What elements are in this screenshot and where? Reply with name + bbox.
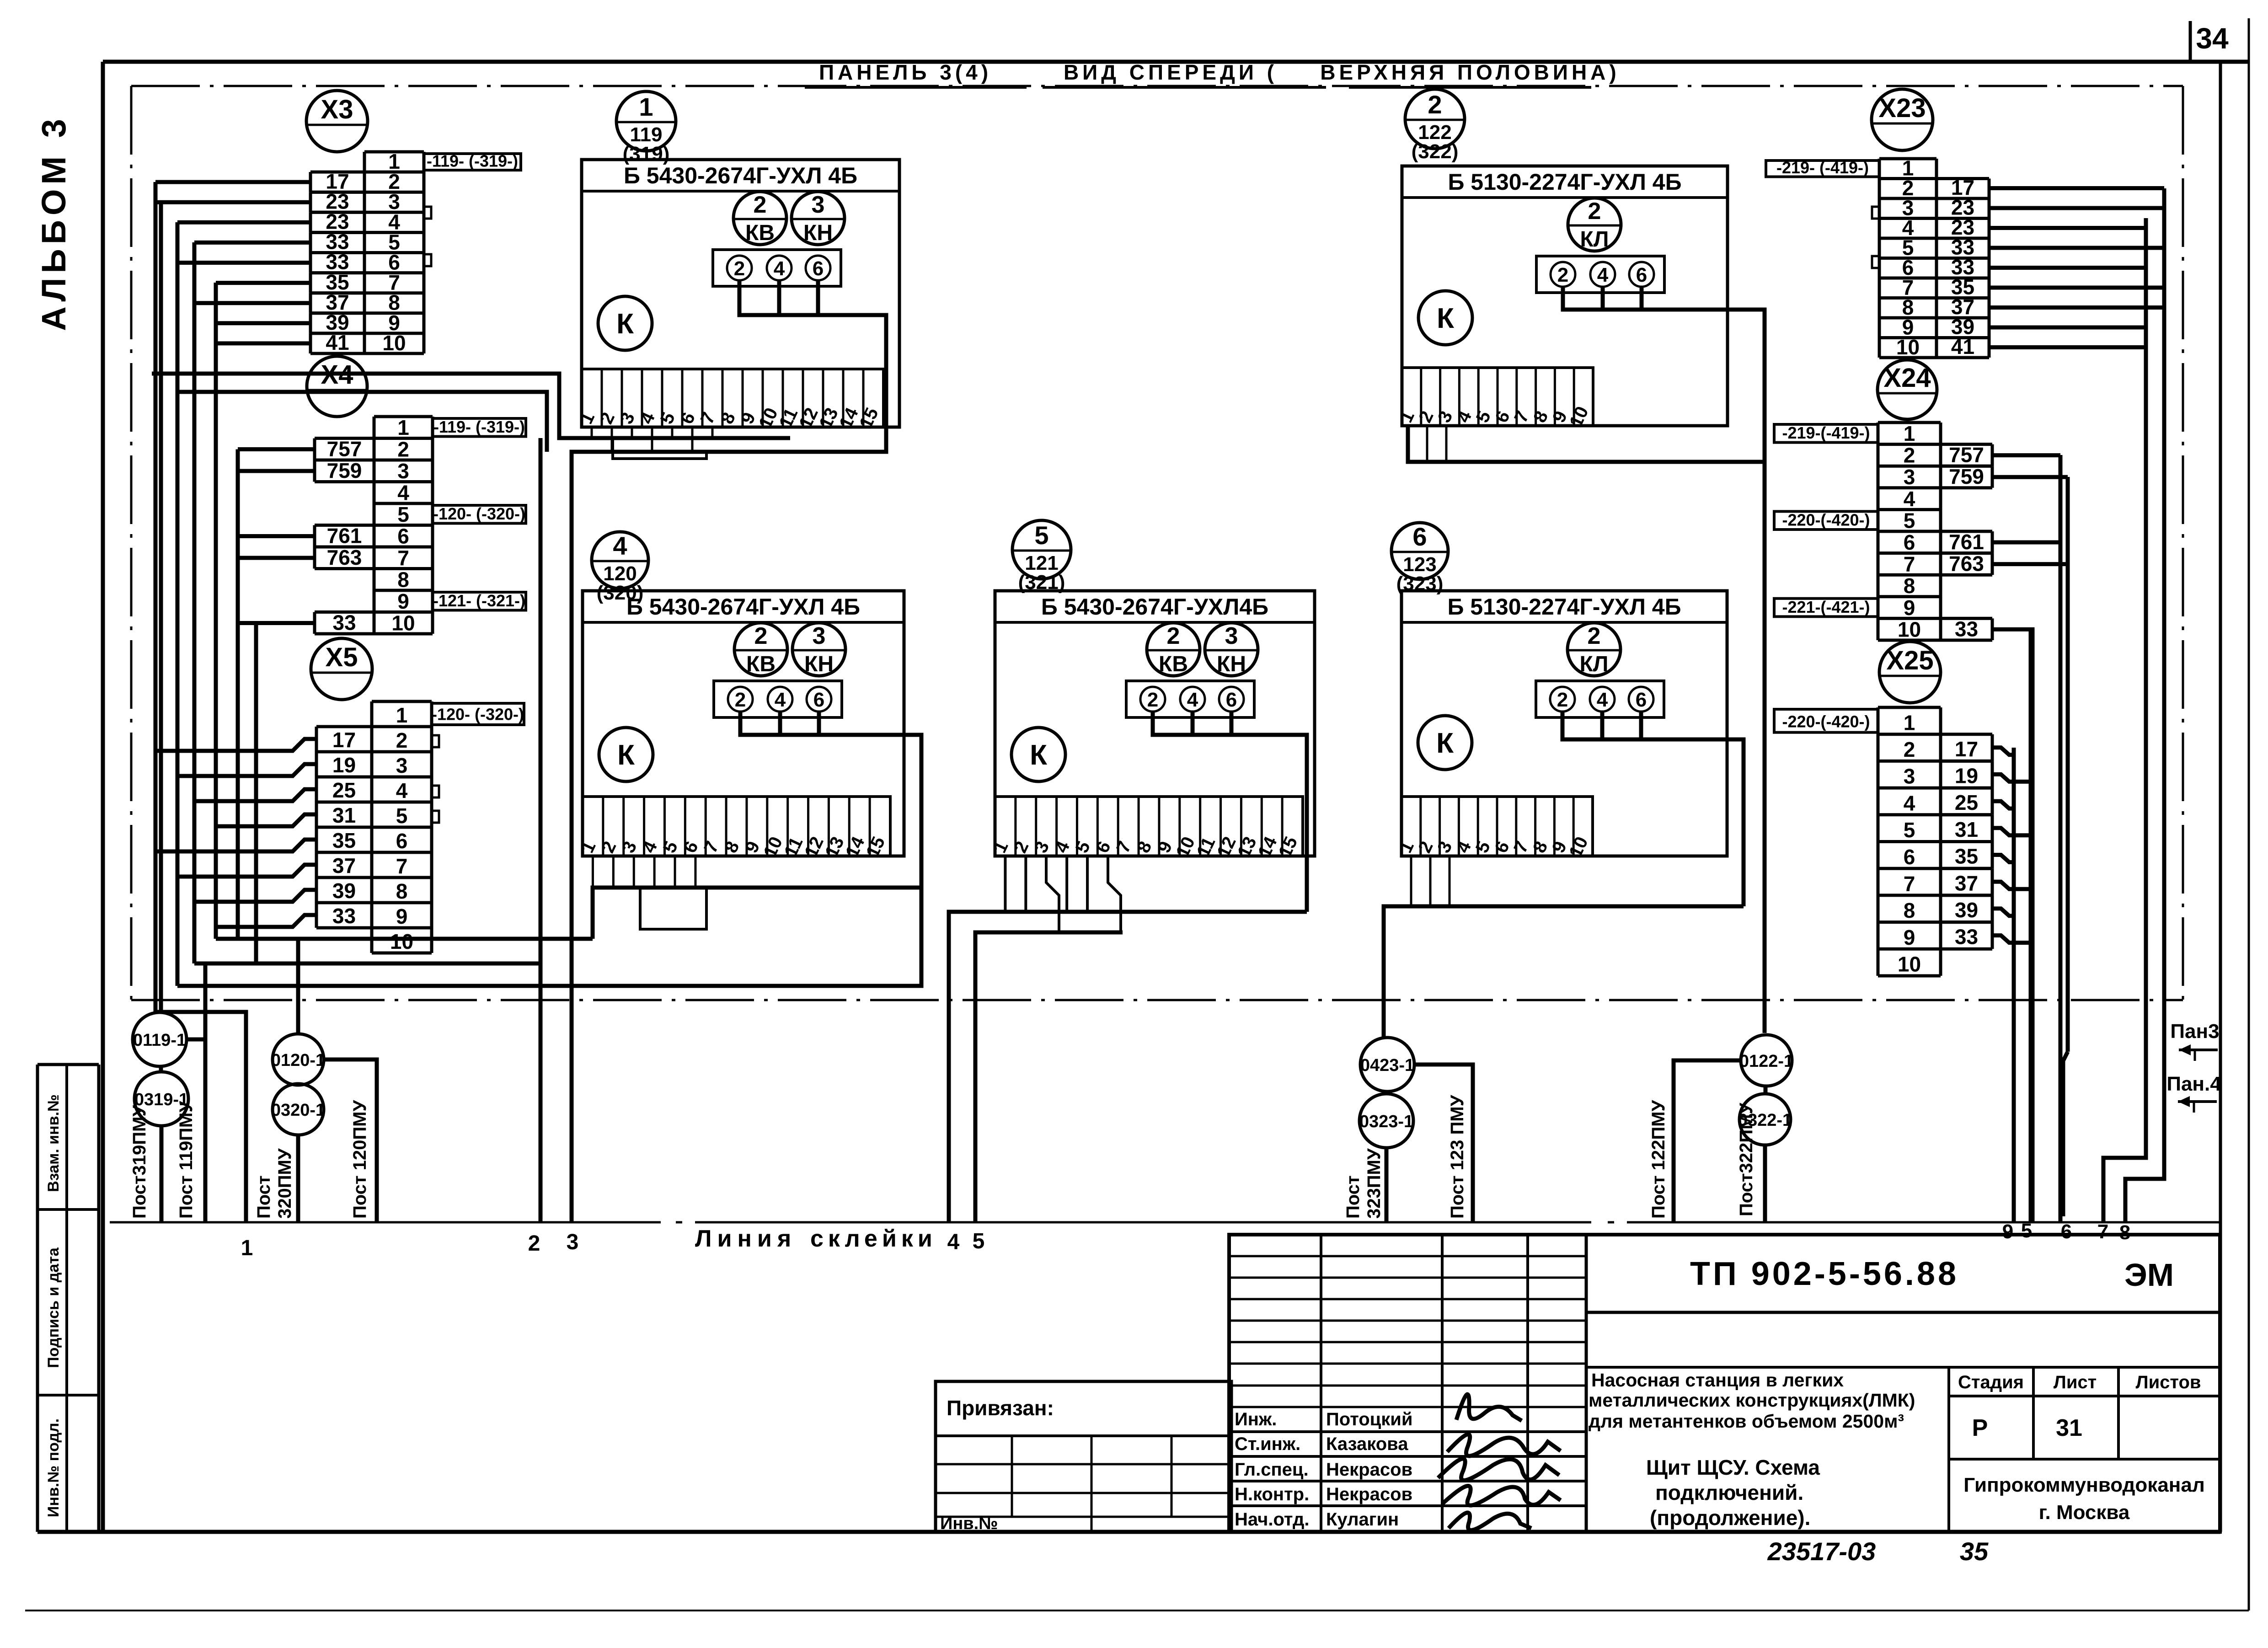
- svg-text:для метантенков объемом 2500: для метантенков объемом 2500м³: [1589, 1411, 1904, 1432]
- svg-text:2: 2: [1904, 738, 1915, 761]
- svg-text:759: 759: [1949, 465, 1984, 488]
- wire X4 row feeds: [238, 449, 315, 964]
- svg-text:0119-1: 0119-1: [133, 1031, 186, 1050]
- connector X24 terminal table: [1878, 423, 1941, 640]
- terminal strip 1..15 of U5: [990, 797, 1303, 861]
- wire U4 under-strip bus: [593, 856, 921, 939]
- contact element 2 КЛ of U2: [1568, 198, 1621, 251]
- contact terminals 2 4 6 of U4: [714, 681, 842, 717]
- svg-text:31: 31: [2056, 1415, 2082, 1441]
- node project title text: [1589, 1370, 1915, 1432]
- svg-text:1: 1: [1904, 422, 1915, 445]
- svg-text:Некрасов: Некрасов: [1326, 1460, 1412, 1480]
- svg-text:4: 4: [1904, 487, 1915, 511]
- svg-text:25: 25: [332, 778, 356, 802]
- svg-text:2: 2: [735, 689, 746, 711]
- svg-text:(319): (319): [623, 143, 670, 165]
- svg-text:2: 2: [1147, 689, 1158, 711]
- svg-text:2: 2: [397, 437, 409, 461]
- svg-text:10: 10: [1896, 335, 1920, 359]
- svg-text:761: 761: [1949, 530, 1984, 554]
- wire bus E y2156 w3 junction: [177, 984, 921, 988]
- svg-text:2: 2: [1557, 264, 1568, 286]
- svg-text:8: 8: [397, 567, 409, 591]
- connector X25 symbol: [1879, 642, 1941, 703]
- svg-text:7: 7: [1904, 872, 1915, 896]
- svg-text:2: 2: [1557, 689, 1568, 711]
- svg-text:1: 1: [1904, 711, 1915, 734]
- svg-text:6: 6: [1226, 689, 1237, 711]
- svg-text:ПАНЕЛЬ 3(4): ПАНЕЛЬ 3(4): [819, 60, 992, 84]
- svg-text:9: 9: [397, 589, 409, 613]
- connector X5 symbol: [311, 638, 372, 700]
- svg-text:К: К: [1436, 728, 1454, 759]
- node post circle 0120-1: [271, 1034, 325, 1085]
- svg-text:1: 1: [241, 1236, 253, 1260]
- wire left bundle vertical E: [214, 283, 218, 939]
- svg-text:4: 4: [397, 481, 409, 504]
- svg-text:Некрасов: Некрасов: [1326, 1484, 1412, 1504]
- svg-text:3: 3: [1904, 465, 1915, 489]
- wire U5 under-strip bus upper: [949, 856, 1307, 1222]
- svg-text:3: 3: [812, 192, 825, 218]
- svg-text:2: 2: [1588, 198, 1601, 225]
- svg-text:31: 31: [1955, 818, 1978, 841]
- svg-text:4: 4: [396, 779, 408, 803]
- contact terminals 2 4 6 of U5: [1126, 681, 1254, 717]
- connector X24 symbol: [1878, 360, 1937, 419]
- relay coil K of U6: [1418, 716, 1472, 770]
- svg-text:X5: X5: [326, 642, 358, 672]
- svg-text:1: 1: [397, 416, 409, 439]
- svg-text:Гл.спец.: Гл.спец.: [1235, 1460, 1309, 1480]
- node privyazan table: [936, 1381, 1231, 1533]
- svg-text:33: 33: [1955, 617, 1978, 641]
- node post circle 0122-1: [1739, 1035, 1793, 1086]
- svg-text:1: 1: [639, 92, 653, 121]
- svg-text:КВ: КВ: [1159, 652, 1188, 676]
- svg-text:4: 4: [1187, 689, 1198, 711]
- connector X25 terminal table: [1878, 707, 1941, 976]
- wire riser V5b: [2029, 629, 2033, 1222]
- svg-text:3: 3: [813, 623, 826, 649]
- svg-text:Ст.инж.: Ст.инж.: [1235, 1434, 1300, 1454]
- wire splice line (Линия склейки): [110, 1221, 2220, 1224]
- svg-text:5: 5: [397, 503, 409, 526]
- svg-text:19: 19: [1955, 764, 1978, 788]
- wire U2 under-strip bus: [1408, 426, 1765, 462]
- connector X4 symbol: [307, 356, 367, 417]
- wire U1 bus feed lower: [177, 392, 547, 452]
- svg-text:6: 6: [396, 829, 408, 853]
- wire sheet-bottom-edge: [25, 1610, 2249, 1611]
- svg-text:Листов: Листов: [2136, 1372, 2201, 1392]
- svg-text:-221-(-421-): -221-(-421-): [1782, 598, 1870, 616]
- svg-text:9: 9: [1904, 596, 1915, 620]
- svg-text:4: 4: [947, 1230, 960, 1254]
- svg-text:КВ: КВ: [746, 652, 776, 676]
- svg-text:-219- (-419-): -219- (-419-): [1776, 158, 1869, 177]
- svg-text:8: 8: [2119, 1221, 2130, 1244]
- wire sheet-right-edge: [2248, 18, 2250, 1611]
- wire U1 under-strip bus: [152, 374, 790, 1222]
- wire bus C y2107 w2 drop: [194, 962, 540, 966]
- wire U6 under-strip bus: [1384, 856, 1744, 1037]
- wire inner-border-left: [130, 86, 133, 1000]
- svg-text:3: 3: [567, 1230, 579, 1254]
- relay coil K of U1: [598, 296, 652, 350]
- svg-text:К: К: [617, 739, 635, 771]
- svg-text:Р: Р: [1972, 1415, 1988, 1441]
- svg-text:757: 757: [1949, 443, 1984, 467]
- svg-text:763: 763: [327, 546, 362, 569]
- svg-text:ТП 902-5-56.88: ТП 902-5-56.88: [1690, 1256, 1959, 1292]
- svg-text:6: 6: [2061, 1220, 2072, 1243]
- svg-text:5: 5: [2021, 1220, 2032, 1242]
- node panel link Пан3: [2170, 1020, 2219, 1061]
- svg-text:склейки: склейки: [810, 1225, 937, 1252]
- svg-text:4: 4: [1904, 791, 1915, 815]
- svg-text:Гипрокоммунводоканал: Гипрокоммунводоканал: [1963, 1474, 2205, 1496]
- svg-text:ЭМ: ЭМ: [2124, 1257, 2174, 1293]
- terminal strip 1..10 of U2: [1396, 368, 1593, 430]
- svg-text:Б 5430-2674Г-УХЛ 4Б: Б 5430-2674Г-УХЛ 4Б: [626, 594, 860, 620]
- svg-text:1: 1: [396, 703, 408, 727]
- wire left bundle vertical B (feeds 0119-1): [159, 202, 163, 1012]
- svg-text:КН: КН: [803, 221, 833, 245]
- wire U4 under-strip staircase: [640, 888, 706, 929]
- svg-text:33: 33: [332, 610, 356, 634]
- svg-text:10: 10: [1898, 952, 1921, 976]
- svg-text:6: 6: [1636, 264, 1647, 286]
- node title block staff rows: [1235, 1409, 1412, 1530]
- node post circle 0119-1: [133, 1012, 187, 1066]
- svg-text:X3: X3: [321, 95, 353, 124]
- relay unit U6 outline Б 5130-2274Г-УХЛ 4Б: [1401, 591, 1727, 856]
- wire inner-border-bottom: [131, 999, 2183, 1001]
- svg-text:4: 4: [1597, 689, 1608, 711]
- svg-text:Пост322ПМУ: Пост322ПМУ: [1736, 1102, 1756, 1216]
- svg-text:2: 2: [1904, 444, 1915, 467]
- svg-text:6: 6: [1904, 845, 1915, 869]
- relay unit U5 outline Б 5430-2674Г-УХЛ4Б: [995, 591, 1315, 856]
- contact element 2 КВ of U4: [734, 623, 787, 676]
- svg-text:-220-(-420-): -220-(-420-): [1782, 712, 1870, 731]
- node vertical text Пост 120ПМУ: [350, 1100, 370, 1219]
- svg-text:(320): (320): [597, 582, 644, 604]
- contact element 2 КЛ of U6: [1567, 623, 1621, 676]
- svg-text:757: 757: [327, 437, 362, 460]
- node vertical text Пост 323ПМУ: [1343, 1148, 1384, 1219]
- svg-text:7: 7: [397, 546, 409, 570]
- wire X3 row feeds: [155, 182, 310, 343]
- svg-text:33: 33: [332, 904, 356, 928]
- wire riser V9: [2012, 748, 2016, 1222]
- connector X5 terminal table: [372, 701, 432, 953]
- svg-text:37: 37: [1955, 871, 1978, 895]
- wire frame-right-inner: [2219, 62, 2222, 1532]
- svg-text:Привязан:: Привязан:: [947, 1396, 1054, 1420]
- svg-text:4: 4: [774, 257, 785, 280]
- svg-text:4: 4: [613, 531, 627, 560]
- svg-text:39: 39: [1955, 898, 1978, 922]
- node X3 keying tabs: [424, 207, 431, 266]
- svg-text:0320-1: 0320-1: [271, 1101, 325, 1120]
- node document number ТП 902-5-56.88 ЭМ: [1586, 1256, 2220, 1312]
- connector X23 terminal table: [1879, 159, 1936, 358]
- svg-text:5: 5: [1904, 508, 1915, 532]
- wire inner-border-right: [2182, 86, 2184, 1000]
- svg-text:Щит ЩСУ. Схема: Щит ЩСУ. Схема: [1646, 1455, 1820, 1479]
- relay coil K of U5: [1011, 728, 1065, 781]
- wire 0423-1 connections: [1386, 1065, 1473, 1222]
- svg-text:6: 6: [813, 689, 824, 711]
- wire bus F y2053: [216, 937, 593, 941]
- svg-text:2: 2: [1588, 623, 1601, 649]
- svg-text:(322): (322): [1412, 140, 1459, 163]
- contact element 3 КН of U5: [1205, 623, 1258, 676]
- svg-text:33: 33: [1955, 925, 1978, 949]
- relay coil K of U4: [599, 728, 653, 781]
- terminal strip 1..15 of U4: [577, 797, 890, 861]
- svg-text:0423-1: 0423-1: [1360, 1056, 1414, 1075]
- svg-text:3: 3: [397, 459, 409, 483]
- svg-text:2: 2: [754, 623, 768, 649]
- node X5 keying tabs: [432, 735, 439, 823]
- svg-text:-121- (-321-): -121- (-321-): [433, 591, 525, 610]
- wire U5 contact bus to riser: [1153, 712, 1307, 912]
- svg-text:5: 5: [396, 804, 408, 828]
- svg-text:Пост 120ПМУ: Пост 120ПМУ: [350, 1100, 370, 1219]
- svg-text:320ПМУ: 320ПМУ: [275, 1148, 295, 1219]
- svg-text:Б 5130-2274Г-УХЛ 4Б: Б 5130-2274Г-УХЛ 4Б: [1448, 169, 1681, 195]
- connector X3 symbol: [306, 91, 368, 152]
- node vertical text Пост322ПМУ: [1736, 1102, 1756, 1216]
- svg-text:КВ: КВ: [745, 221, 775, 245]
- svg-text:41: 41: [326, 331, 349, 354]
- wire frame-left-border: [101, 62, 105, 1532]
- wire 0122-1 connections: [1674, 1060, 1765, 1222]
- svg-text:6: 6: [813, 257, 824, 280]
- svg-text:Казакова: Казакова: [1326, 1434, 1408, 1454]
- connector X23 symbol: [1872, 89, 1933, 150]
- wire U2 contact bus to riser: [1563, 287, 1765, 1033]
- node sheet-number 34: [2190, 21, 2229, 61]
- svg-text:Пост319ПМУ: Пост319ПМУ: [129, 1105, 150, 1219]
- node vertical text Пост 123 ПМУ: [1447, 1094, 1467, 1219]
- svg-text:0120-1: 0120-1: [271, 1051, 325, 1070]
- svg-text:0323-1: 0323-1: [1359, 1112, 1413, 1131]
- svg-text:6: 6: [1412, 522, 1427, 551]
- svg-text:8: 8: [1904, 574, 1915, 598]
- svg-text:3: 3: [1225, 623, 1238, 649]
- svg-text:5: 5: [973, 1229, 985, 1253]
- svg-text:Б 5130-2274Г-УХЛ 4Б: Б 5130-2274Г-УХЛ 4Б: [1447, 594, 1681, 620]
- wire riser V8 to splice 8: [2125, 188, 2164, 1222]
- svg-text:Пост 122ПМУ: Пост 122ПМУ: [1648, 1100, 1669, 1219]
- svg-text:19: 19: [332, 753, 356, 777]
- svg-text:Потоцкий: Потоцкий: [1326, 1409, 1412, 1429]
- svg-text:17: 17: [1955, 737, 1978, 761]
- svg-text:7: 7: [2097, 1220, 2108, 1243]
- contact element 2 КВ of U1: [733, 192, 786, 245]
- svg-text:37: 37: [332, 854, 356, 878]
- svg-text:35: 35: [1955, 845, 1978, 868]
- svg-text:К: К: [1030, 739, 1047, 771]
- svg-text:759: 759: [327, 459, 362, 482]
- wire w1 jog: [155, 1012, 246, 1222]
- svg-text:8: 8: [1904, 899, 1915, 922]
- wire X23 feeds to risers: [1989, 188, 2164, 348]
- node signatures: [1438, 1394, 1561, 1530]
- svg-text:Пост 119ПМУ: Пост 119ПМУ: [176, 1101, 196, 1219]
- svg-text:-219-(-419-): -219-(-419-): [1782, 423, 1870, 442]
- contact element 3 КН of U1: [792, 192, 845, 245]
- svg-text:КН: КН: [804, 652, 834, 676]
- svg-text:6: 6: [1636, 689, 1647, 711]
- svg-text:-120- (-320-): -120- (-320-): [433, 504, 525, 523]
- connector X4 terminal table: [374, 417, 433, 634]
- svg-text:10: 10: [391, 611, 415, 635]
- relay unit U1 outline Б 5430-2674Г-УХЛ 4Б: [582, 160, 899, 427]
- node splice line label: [695, 1225, 937, 1252]
- svg-text:Пост: Пост: [1343, 1176, 1363, 1219]
- svg-text:Пост 123 ПМУ: Пост 123 ПМУ: [1447, 1094, 1467, 1219]
- svg-text:Инж.: Инж.: [1235, 1409, 1277, 1429]
- svg-text:34: 34: [2196, 22, 2229, 55]
- terminal strip 1..15 of U1: [576, 369, 883, 432]
- svg-text:подключений.: подключений.: [1655, 1481, 1803, 1504]
- svg-text:-119- (-319-): -119- (-319-): [433, 417, 525, 436]
- svg-text:(323): (323): [1396, 573, 1444, 595]
- wire left bundle vertical C: [176, 222, 180, 986]
- contact terminals 2 4 6 of U2: [1536, 256, 1664, 293]
- svg-text:Н.контр.: Н.контр.: [1235, 1484, 1309, 1504]
- wire X25 feeds: [1992, 748, 2031, 943]
- svg-text:763: 763: [1949, 552, 1984, 576]
- node cable marker 2/122(322): [1405, 89, 1465, 163]
- svg-text:35: 35: [1960, 1537, 1989, 1566]
- svg-text:10: 10: [1898, 617, 1921, 641]
- svg-text:25: 25: [1955, 791, 1978, 814]
- contact terminals 2 4 6 of U6: [1536, 681, 1664, 717]
- svg-text:К: К: [616, 308, 634, 340]
- wire X24 feeds: [1992, 455, 2068, 1222]
- svg-text:(продолжение).: (продолжение).: [1650, 1506, 1810, 1530]
- svg-text:АЛЬБОМ 3: АЛЬБОМ 3: [35, 114, 73, 331]
- svg-text:КЛ: КЛ: [1580, 227, 1609, 251]
- node organization: [1963, 1474, 2205, 1524]
- terminal strip 1..10 of U6: [1396, 797, 1593, 861]
- wire U1 under-strip staircase: [613, 438, 706, 459]
- svg-text:-120- (-320-): -120- (-320-): [432, 705, 524, 724]
- connector X3 terminal table: [364, 152, 424, 353]
- svg-text:6: 6: [1904, 530, 1915, 554]
- node stamp-column: [37, 1065, 99, 1532]
- svg-text:Б 5430-2674Г-УХЛ 4Б: Б 5430-2674Г-УХЛ 4Б: [624, 163, 857, 188]
- node cable marker 6/123(323): [1391, 522, 1448, 595]
- wire X5 row feeds with jogs: [155, 739, 316, 927]
- wire U5 under-strip bus lower / w5 drop: [975, 856, 1123, 1222]
- svg-text:-119- (-319-): -119- (-319-): [427, 152, 518, 171]
- svg-text:2: 2: [1167, 623, 1180, 649]
- node post circle 0322-1: [1738, 1094, 1792, 1145]
- svg-text:Насосная станция в легких: Насосная станция в легких: [1591, 1370, 1844, 1391]
- svg-text:г. Москва: г. Москва: [2039, 1501, 2130, 1524]
- svg-text:4: 4: [775, 689, 786, 711]
- node post circle 0319-1: [134, 1072, 188, 1126]
- node inventory number 23517-03 35: [1767, 1537, 1989, 1566]
- svg-text:2: 2: [396, 728, 408, 752]
- svg-text:2: 2: [1428, 90, 1442, 119]
- svg-text:металлических конструкциях(ЛМ: металлических конструкциях(ЛМК): [1589, 1390, 1915, 1411]
- svg-text:Взам. инв.№: Взам. инв.№: [45, 1094, 62, 1192]
- wire U1 contact bus to riser: [572, 280, 886, 1222]
- wire riser V7 to splice 7: [2103, 218, 2146, 1222]
- svg-text:0122-1: 0122-1: [1739, 1052, 1793, 1071]
- svg-text:39: 39: [332, 879, 356, 903]
- node vertical text Пост 119ПМУ: [176, 1101, 196, 1219]
- contact element 2 КВ of U5: [1147, 623, 1200, 676]
- svg-text:Линия: Линия: [695, 1225, 797, 1252]
- svg-text:23517-03: 23517-03: [1767, 1537, 1876, 1566]
- svg-text:Подпись и дата: Подпись и дата: [45, 1247, 62, 1368]
- node post circle 0423-1: [1360, 1038, 1414, 1092]
- svg-text:3: 3: [1904, 765, 1915, 788]
- svg-text:Нач.отд.: Нач.отд.: [1235, 1509, 1309, 1530]
- svg-text:6: 6: [397, 524, 409, 548]
- wire 0120-1 connections: [298, 939, 377, 1222]
- relay coil K of U2: [1418, 291, 1472, 345]
- wire frame-top-border: [103, 60, 2249, 64]
- node cable marker 4/120(320): [592, 531, 648, 604]
- svg-text:2: 2: [734, 257, 745, 280]
- svg-text:31: 31: [332, 803, 356, 827]
- svg-text:7: 7: [396, 854, 408, 878]
- node vertical text Пост 320ПМУ: [254, 1148, 295, 1219]
- wire left bundle vertical A: [154, 182, 158, 1012]
- node vertical text Пост319ПМУ: [129, 1105, 150, 1219]
- svg-text:761: 761: [327, 524, 362, 547]
- node stage cells: [1958, 1372, 2201, 1441]
- svg-text:4: 4: [1597, 264, 1609, 286]
- svg-text:2: 2: [528, 1231, 540, 1256]
- contact terminals 2 4 6 of U1: [713, 250, 841, 286]
- wire U4 contact bus to riser: [592, 712, 921, 986]
- svg-text:323ПМУ: 323ПМУ: [1364, 1148, 1384, 1219]
- svg-text:К: К: [1437, 303, 1454, 334]
- relay unit U4 outline Б 5430-2674Г-УХЛ 4Б: [583, 591, 904, 856]
- svg-text:5: 5: [1034, 521, 1048, 550]
- svg-text:10: 10: [390, 930, 413, 953]
- wire U1 strip stubs: [592, 427, 712, 452]
- svg-text:X25: X25: [1886, 646, 1933, 675]
- node vertical text Пост 122ПМУ: [1648, 1100, 1669, 1219]
- node cable marker 5/121(321): [1012, 520, 1071, 594]
- svg-text:9: 9: [2002, 1220, 2013, 1243]
- svg-text:-220-(-420-): -220-(-420-): [1782, 511, 1870, 530]
- svg-text:КЛ: КЛ: [1580, 652, 1609, 676]
- node panel link Пан.4: [2166, 1073, 2221, 1113]
- svg-text:ВИД СПЕРЕДИ (: ВИД СПЕРЕДИ (: [1064, 60, 1278, 84]
- svg-text:ВЕРХНЯЯ ПОЛОВИНА): ВЕРХНЯЯ ПОЛОВИНА): [1320, 60, 1620, 84]
- svg-text:3: 3: [396, 754, 408, 777]
- node splice wire numbers left: [241, 1229, 985, 1260]
- svg-text:17: 17: [332, 728, 356, 752]
- svg-text:Кулагин: Кулагин: [1326, 1509, 1399, 1530]
- svg-text:9: 9: [396, 904, 408, 928]
- svg-text:9: 9: [1904, 926, 1915, 949]
